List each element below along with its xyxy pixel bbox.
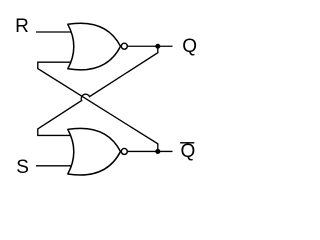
wire S input to bottom NOR gate (36, 165, 72, 167)
top NOR gate U1 body (68, 23, 121, 70)
wire feedback from Q node to bottom gate upper input (ascending diagonal with hop) (38, 46, 158, 135)
wire feedback from Q-bar node to top gate lower input (descending diagonal) (38, 62, 158, 151)
junction dot at Q-bar node (155, 149, 160, 154)
wire top gate output to Q (128, 45, 173, 47)
svg-text:Q: Q (181, 141, 196, 162)
junction dot at Q node (155, 44, 160, 49)
bottom NOR gate U2 body (68, 128, 121, 175)
svg-text:R: R (15, 16, 29, 37)
wire R input to top NOR gate (36, 31, 72, 33)
top NOR gate inversion bubble (121, 43, 127, 49)
svg-text:Q: Q (182, 36, 197, 57)
bottom NOR gate inversion bubble (121, 148, 127, 154)
wire bottom gate output to Q-bar (128, 150, 173, 152)
overline of Q-bar (180, 142, 194, 144)
svg-text:S: S (16, 157, 29, 178)
